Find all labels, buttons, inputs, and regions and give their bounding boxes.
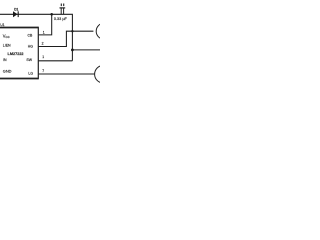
svg-text:7: 7 <box>42 69 44 73</box>
svg-text:GND: GND <box>3 69 12 74</box>
wire VCC/D1 top rail <box>0 14 72 61</box>
IC U1 LM27222 box (left side cropped) <box>0 27 38 80</box>
capacitor 0.33uF bootstrap <box>60 4 66 15</box>
svg-text:D1: D1 <box>14 8 18 12</box>
svg-text:HG: HG <box>28 45 34 49</box>
svg-text:U1: U1 <box>0 23 4 27</box>
diode D1 <box>13 8 19 18</box>
wire SW node run to right edge <box>72 49 100 51</box>
svg-text:0.33 µF: 0.33 µF <box>54 17 68 21</box>
svg-text:LG: LG <box>28 71 33 75</box>
transistor Q1 high-side (clipped circle) <box>96 23 112 39</box>
node junction dot SW run <box>71 49 74 52</box>
wire SW pin run <box>38 60 72 62</box>
svg-text:SW: SW <box>26 58 32 62</box>
svg-text:LM27222: LM27222 <box>8 52 24 56</box>
svg-text:VCC: VCC <box>3 34 10 40</box>
wire HG run and riser to high FET gate <box>38 31 93 46</box>
svg-text:1: 1 <box>43 30 45 34</box>
node junction dot HG run crossing <box>71 30 73 32</box>
node junction dot on top rail <box>50 13 53 16</box>
svg-text:LIEN: LIEN <box>3 44 11 48</box>
transistor Q2 low-side (clipped circle) <box>95 65 113 83</box>
svg-text:CB: CB <box>28 33 34 37</box>
wire LG run to low FET gate <box>38 73 95 75</box>
svg-text:2: 2 <box>42 42 44 46</box>
svg-text:IN: IN <box>3 58 7 62</box>
wire CB riser from top rail node <box>38 14 51 35</box>
svg-text:1: 1 <box>42 55 44 59</box>
